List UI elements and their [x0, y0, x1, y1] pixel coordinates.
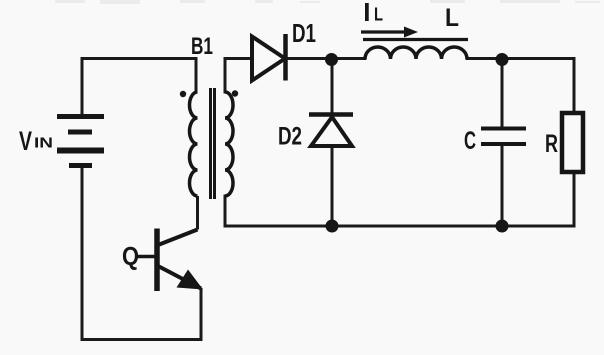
base bar [154, 229, 160, 292]
transistor Q [122, 229, 203, 340]
wire Vin bottom down to bottom-left rail [81, 167, 84, 340]
svg-text:IN: IN [34, 135, 53, 152]
emitter vertical to bottom rail [200, 288, 203, 340]
node junction D2/bottom rail [326, 220, 339, 233]
primary winding bottom lead [196, 196, 199, 230]
core lines [209, 88, 212, 199]
transformer B1 [180, 33, 238, 230]
svg-text:D2: D2 [278, 123, 302, 151]
node junction D1/D2 [325, 53, 338, 66]
wire bottom-left rail [82, 338, 201, 341]
wire inductor to right corner, down to R top [467, 59, 574, 114]
inductor L [365, 47, 467, 59]
wire secondary winding bottom lead [224, 196, 227, 226]
resistor R [545, 113, 583, 172]
diode D2 [278, 115, 353, 151]
base lead [136, 255, 155, 259]
svg-text:B1: B1 [191, 33, 213, 60]
svg-text:L: L [374, 5, 383, 25]
wire D1 cathode to inductor [287, 57, 365, 60]
primary top lead [195, 59, 198, 93]
node junction C/bottom rail [496, 220, 509, 233]
secondary winding [225, 92, 233, 196]
wire C branch vertical [501, 59, 504, 127]
svg-text:R: R [545, 130, 558, 158]
emitter arrowhead [177, 270, 204, 290]
svg-text:I: I [363, 0, 370, 27]
wire top-left horizontal (Vin top to B1 primary top) [82, 59, 196, 116]
dot secondary polarity [232, 90, 238, 96]
primary winding [190, 92, 198, 196]
overline above L [363, 38, 468, 41]
scan smudge top edge [55, 0, 600, 4]
dot primary polarity [180, 91, 186, 97]
wire bottom rail secondary [225, 225, 574, 228]
svg-text:V: V [19, 126, 32, 156]
collector lead diagonal [158, 230, 198, 246]
battery Vin [57, 117, 104, 166]
svg-text:C: C [464, 127, 476, 155]
emitter lead diagonal [158, 266, 201, 289]
node junction L/C [496, 53, 509, 66]
diode D1 [252, 18, 316, 81]
wire D2 branch vertical [331, 59, 334, 113]
wire R bottom to bottom rail [573, 172, 576, 226]
svg-text:D1: D1 [292, 18, 316, 48]
svg-text:Q: Q [122, 241, 139, 271]
arrow IL direction [361, 27, 418, 38]
capacitor C [464, 127, 526, 155]
svg-text:L: L [445, 4, 459, 32]
label IL [363, 0, 383, 27]
label Vin [19, 126, 53, 156]
wire secondary top to D1 anode [225, 59, 252, 93]
